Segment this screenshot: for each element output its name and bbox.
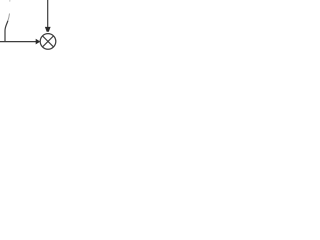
wire: vertical wire into mixer from top edge — [47, 0, 49, 27]
wire: horizontal wire into mixer from left edge — [0, 41, 36, 43]
wire: curved wire fading in, upper diagonal part — [8, 14, 10, 21]
mixer (multiplier) circle — [40, 34, 56, 50]
arrowhead: right-pointing into mixer left port — [36, 39, 41, 45]
arrowhead: down-pointing into mixer top port — [45, 27, 51, 32]
wire: curved wire bending into vertical run down to junction — [5, 21, 8, 41]
mixer X diagonal (top-left to bottom-right) — [42, 36, 53, 47]
wire: faint upper part of curved wire from top edge — [9, 0, 11, 2]
mixer X diagonal (top-right to bottom-left) — [42, 36, 53, 47]
